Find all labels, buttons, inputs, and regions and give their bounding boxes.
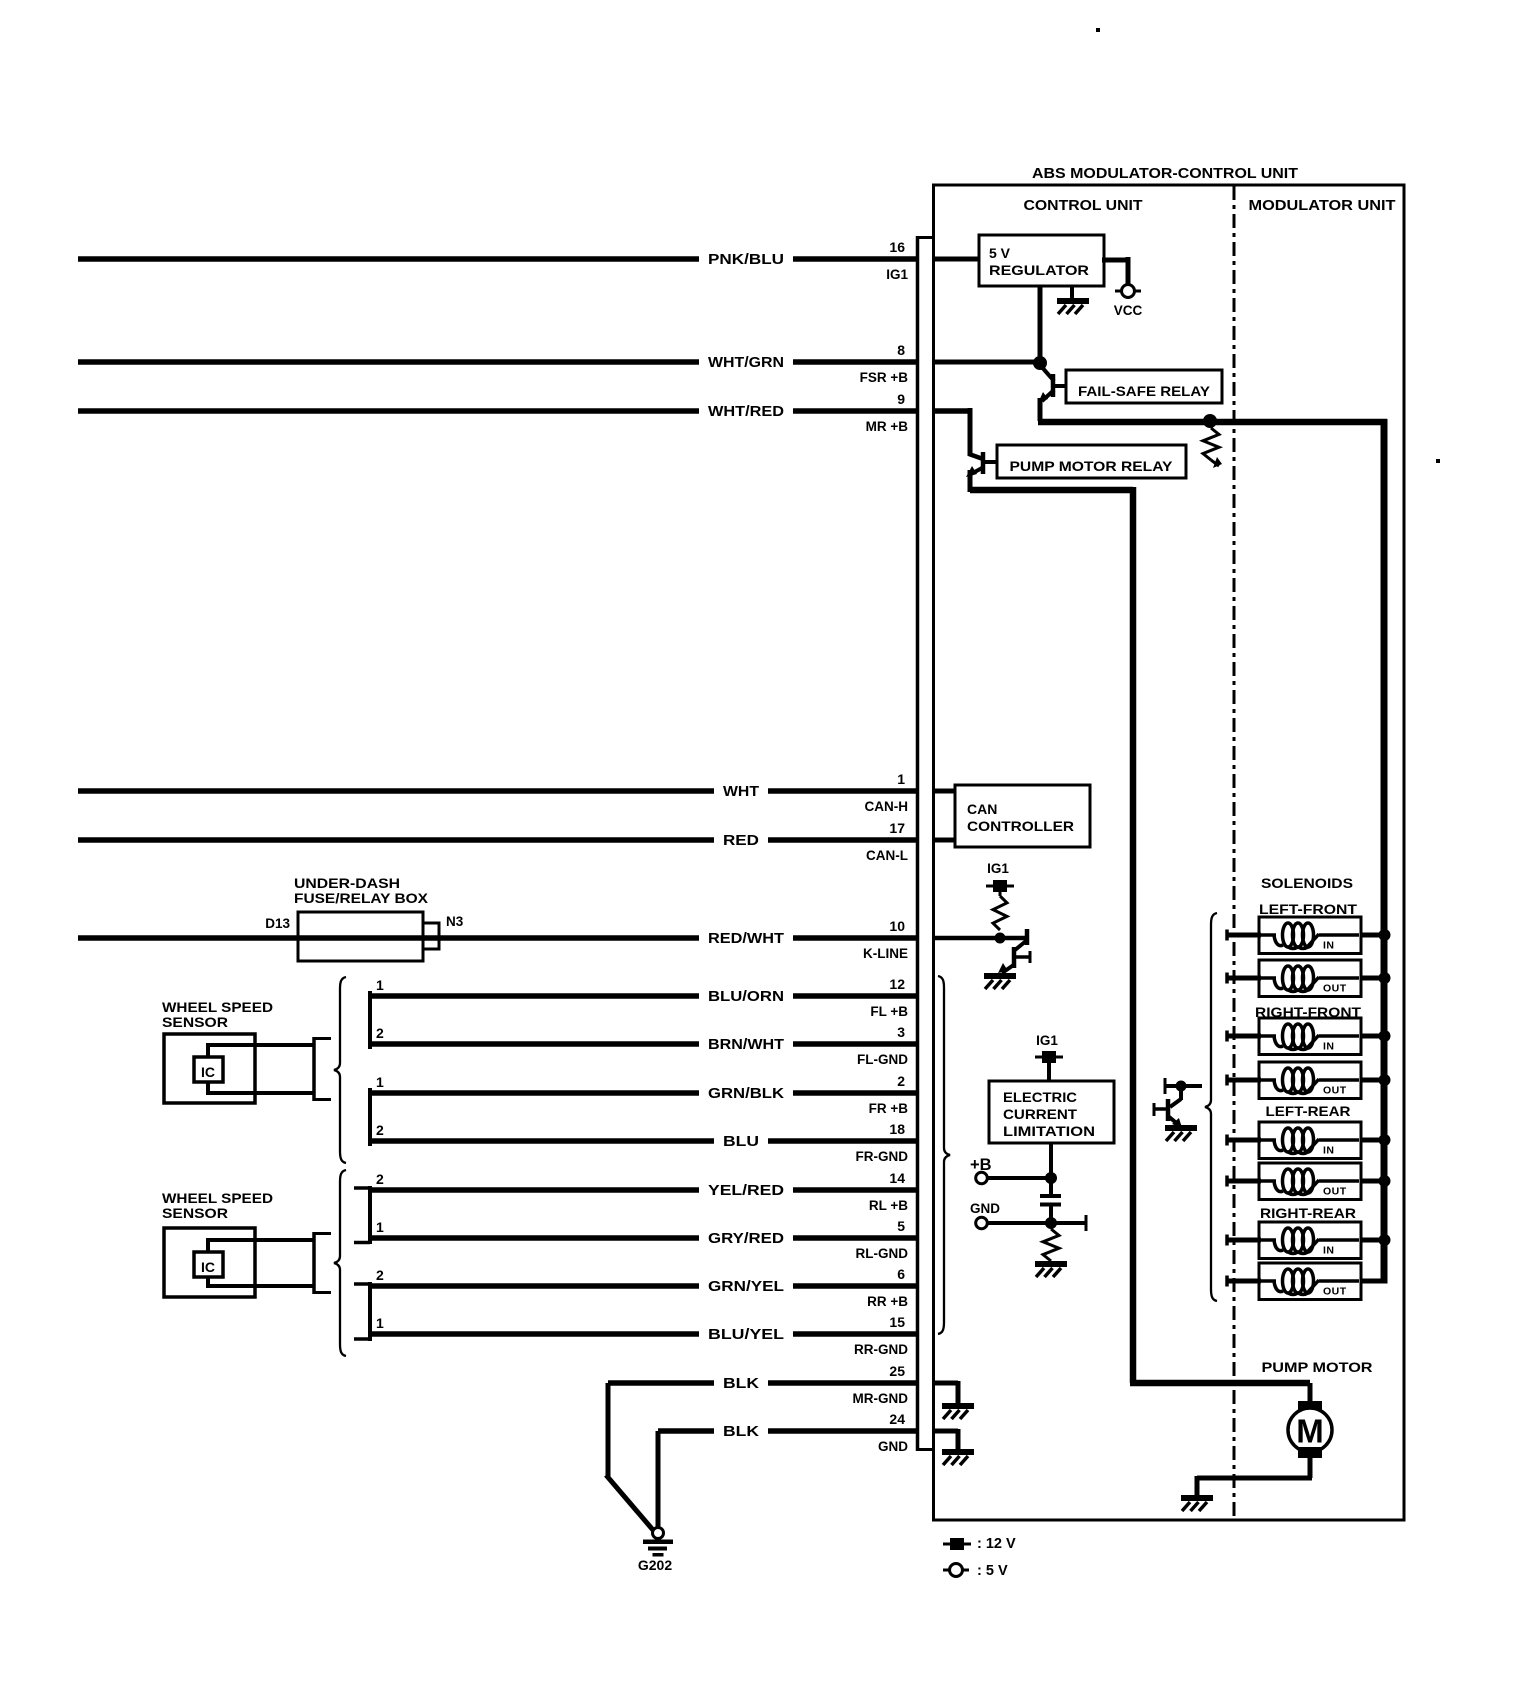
svg-text:GND: GND bbox=[878, 1439, 908, 1454]
svg-text:RR-GND: RR-GND bbox=[854, 1342, 908, 1357]
svg-text:1: 1 bbox=[376, 1074, 384, 1090]
svg-text:FR-GND: FR-GND bbox=[856, 1149, 909, 1164]
label pin name MR +B bbox=[866, 419, 909, 434]
svg-text:FUSE/RELAY BOX: FUSE/RELAY BOX bbox=[294, 890, 429, 906]
divider dash-dot line between control and modulator unit bbox=[1233, 186, 1236, 1519]
solenoid LEFT-REAR IN bbox=[1259, 1122, 1361, 1159]
label pin name RL +B bbox=[869, 1198, 908, 1213]
ground at Q4 bbox=[1165, 1125, 1197, 1141]
svg-text:1: 1 bbox=[376, 1315, 384, 1331]
label pin number 14 bbox=[889, 1170, 905, 1186]
ground at GND bbox=[942, 1449, 974, 1465]
svg-text:SENSOR: SENSOR bbox=[162, 1014, 228, 1030]
svg-text:M: M bbox=[1296, 1413, 1324, 1450]
svg-text:2: 2 bbox=[376, 1025, 384, 1041]
svg-text:BLK: BLK bbox=[723, 1424, 760, 1440]
svg-text:RED/WHT: RED/WHT bbox=[708, 931, 784, 947]
svg-text:RR +B: RR +B bbox=[867, 1294, 908, 1309]
svg-text:IC: IC bbox=[201, 1259, 215, 1275]
label pin number 12 bbox=[889, 976, 905, 992]
solenoid RIGHT-REAR OUT bbox=[1259, 1263, 1361, 1300]
svg-text:WHEEL SPEED: WHEEL SPEED bbox=[162, 1190, 273, 1206]
5 V regulator U1 bbox=[979, 235, 1104, 286]
svg-text:BLU: BLU bbox=[723, 1134, 759, 1150]
label pin number 2 bbox=[897, 1073, 905, 1089]
wire pair bracket FR pins 1-2 bbox=[368, 1088, 372, 1146]
svg-text:CONTROLLER: CONTROLLER bbox=[967, 818, 1074, 834]
wire IG1 to ECL box bbox=[1047, 1057, 1051, 1081]
wire BLU/ORN segment to connector pin 12 bbox=[793, 993, 917, 999]
wire WHT/RED pin 9 (MR +B) left segment bbox=[78, 408, 699, 414]
svg-text:17: 17 bbox=[889, 820, 905, 836]
scan speck right bbox=[1436, 459, 1440, 463]
label wire color YEL/RED bbox=[708, 1183, 784, 1199]
label solenoid group RIGHT-REAR bbox=[1260, 1205, 1356, 1221]
label pin name FR +B bbox=[869, 1101, 909, 1116]
label WHEEL SPEED SENSOR 2 bbox=[162, 1190, 273, 1221]
label PUMP MOTOR bbox=[1262, 1359, 1373, 1375]
svg-text:OUT: OUT bbox=[1323, 983, 1347, 995]
svg-text:OUT: OUT bbox=[1323, 1186, 1347, 1198]
label pin number 10 bbox=[889, 918, 905, 934]
svg-text:5 V: 5 V bbox=[989, 245, 1011, 261]
wheel speed sensor 2 internal wiring bbox=[206, 1240, 314, 1286]
label pin number 17 bbox=[889, 820, 905, 836]
ground at ECL resistor bbox=[1035, 1261, 1067, 1277]
label pin name RR-GND bbox=[854, 1342, 908, 1357]
label wire color BLU bbox=[723, 1134, 759, 1150]
wire GRN/BLK pin 2 (FR +B) left segment bbox=[370, 1090, 699, 1096]
label wire color WHT bbox=[723, 784, 759, 800]
wire to RIGHT-REAR OUT solenoid bbox=[1227, 1276, 1261, 1287]
label : 5 V bbox=[977, 1563, 1008, 1579]
ground at K-line transistor bbox=[984, 973, 1016, 989]
label pin name IG1 bbox=[886, 267, 908, 282]
wire WHT segment to connector pin 1 bbox=[768, 788, 917, 794]
wheel speed sensor 1 body bbox=[164, 1034, 255, 1103]
node junction solenoid feed at 1240 bbox=[1379, 1234, 1391, 1246]
connector D13 under-dash fuse/relay box bbox=[298, 912, 423, 961]
svg-text:MR-GND: MR-GND bbox=[853, 1391, 909, 1406]
wire to RIGHT-FRONT IN solenoid bbox=[1227, 1031, 1261, 1042]
svg-text:YEL/RED: YEL/RED bbox=[708, 1183, 784, 1199]
wire ECL box to +B junction bbox=[1049, 1143, 1053, 1178]
svg-text:LEFT-FRONT: LEFT-FRONT bbox=[1259, 901, 1357, 917]
label pin number 24 bbox=[889, 1411, 905, 1427]
label solenoid group LEFT-REAR bbox=[1266, 1103, 1351, 1119]
label WHEEL SPEED SENSOR 1 bbox=[162, 999, 273, 1030]
connector N3 tab bbox=[423, 923, 439, 949]
svg-text:GND: GND bbox=[970, 1201, 1000, 1216]
label +B bbox=[970, 1156, 992, 1174]
wire solenoid LEFT-REAR IN to 12V feed bbox=[1361, 1138, 1387, 1143]
svg-text:WHT/RED: WHT/RED bbox=[708, 404, 784, 420]
wire GND to junction and stub bbox=[987, 1215, 1086, 1231]
label pin number 9 bbox=[897, 391, 905, 407]
svg-text:IN: IN bbox=[1323, 1041, 1335, 1053]
wire PNK/BLU pin 16 (IG1) left segment bbox=[78, 256, 699, 262]
wire solenoid RIGHT-FRONT IN to 12V feed bbox=[1361, 1034, 1387, 1039]
wire MR-GND pin 25 to ground bbox=[933, 1381, 958, 1404]
label pin number 25 bbox=[889, 1363, 905, 1379]
node junction solenoid feed at 978 bbox=[1379, 972, 1391, 984]
svg-text:PUMP MOTOR: PUMP MOTOR bbox=[1262, 1359, 1373, 1375]
svg-text:1: 1 bbox=[897, 771, 905, 787]
wire WHT/GRN pin 8 (FSR +B) left segment bbox=[78, 359, 699, 365]
wire 12V rail from Q1 to modulator solenoid feed bbox=[1038, 419, 1387, 426]
wire pin 16 to 5V regulator bbox=[933, 257, 979, 262]
wire GRY/RED pin 5 (RL-GND) left segment bbox=[370, 1235, 699, 1241]
svg-text:1: 1 bbox=[376, 977, 384, 993]
capacitor C1 bbox=[1040, 1178, 1061, 1223]
label wire color BLK bbox=[723, 1376, 760, 1392]
motor M1 pump motor bbox=[1288, 1401, 1332, 1458]
svg-text:BRN/WHT: BRN/WHT bbox=[708, 1037, 784, 1053]
node junction on 12V rail bbox=[1203, 414, 1217, 428]
svg-text:2: 2 bbox=[897, 1073, 905, 1089]
svg-text:GRY/RED: GRY/RED bbox=[708, 1231, 784, 1247]
wire to RIGHT-FRONT OUT solenoid bbox=[1227, 1075, 1261, 1086]
label wire color GRN/YEL bbox=[708, 1279, 784, 1295]
svg-text:5: 5 bbox=[897, 1218, 905, 1234]
resistor K-line pull-up bbox=[993, 892, 1007, 930]
svg-text:CAN: CAN bbox=[967, 801, 997, 817]
svg-text:PNK/BLU: PNK/BLU bbox=[708, 252, 784, 268]
label wire color GRN/BLK bbox=[708, 1086, 785, 1102]
wire GND pin 24 to ground bbox=[933, 1429, 958, 1450]
label pin number 15 bbox=[889, 1314, 905, 1330]
svg-text:8: 8 bbox=[897, 342, 905, 358]
block ELECTRIC CURRENT LIMITATION bbox=[989, 1081, 1114, 1143]
solenoid RIGHT-FRONT IN bbox=[1259, 1018, 1361, 1055]
wire to LEFT-REAR OUT solenoid bbox=[1227, 1176, 1261, 1187]
svg-text:LIMITATION: LIMITATION bbox=[1003, 1124, 1095, 1139]
IC chip inside wheel speed sensor 2 bbox=[194, 1252, 223, 1277]
node junction +B bbox=[1045, 1172, 1057, 1184]
svg-text:OUT: OUT bbox=[1323, 1286, 1347, 1298]
svg-text:IG1: IG1 bbox=[987, 861, 1009, 876]
wire WHT/GRN segment to connector pin 8 bbox=[793, 359, 917, 365]
wire 12V solenoid feed vertical bbox=[1381, 419, 1388, 1284]
label pin name CAN-L bbox=[866, 848, 908, 863]
transistor Q1 fail-safe relay driver bbox=[1038, 365, 1066, 421]
label pin name FSR +B bbox=[860, 370, 909, 385]
label solenoid group LEFT-FRONT bbox=[1259, 901, 1357, 917]
wire RED/WHT segment to connector pin 10 bbox=[793, 935, 917, 941]
ground at 5V regulator bbox=[1057, 286, 1089, 314]
scan speck top bbox=[1096, 28, 1100, 32]
wire BLK pin 24 drop to G202 bbox=[656, 1431, 661, 1528]
wire GRY/RED segment to connector pin 5 bbox=[793, 1235, 917, 1241]
wire RED pin 17 (CAN-L) left segment bbox=[78, 837, 714, 843]
svg-text:G202: G202 bbox=[638, 1557, 672, 1573]
node GND 5V terminal bbox=[976, 1217, 988, 1229]
solenoid LEFT-FRONT OUT bbox=[1259, 960, 1361, 997]
label sensor wire pin number 2 at row 1190 bbox=[376, 1171, 384, 1187]
svg-text:14: 14 bbox=[889, 1170, 905, 1186]
label pin number 16 bbox=[889, 239, 905, 255]
wire WHT/RED segment to connector pin 9 bbox=[793, 408, 917, 414]
label pin number 18 bbox=[889, 1121, 905, 1137]
label wire color RED/WHT bbox=[708, 931, 784, 947]
label : 12 V bbox=[977, 1536, 1016, 1552]
wire BLK pin 24 (GND) left segment bbox=[658, 1428, 714, 1434]
svg-text:BLU/ORN: BLU/ORN bbox=[708, 989, 784, 1005]
ground at MR-GND bbox=[942, 1403, 974, 1419]
svg-text:IN: IN bbox=[1323, 1145, 1335, 1157]
brace grouping solenoids bbox=[1205, 913, 1217, 1301]
node junction WHT/GRN bbox=[1033, 356, 1047, 370]
node IG1 12V supply K-line bbox=[986, 880, 1014, 892]
label pin number 1 bbox=[897, 771, 905, 787]
label wire color BLU/YEL bbox=[708, 1327, 784, 1343]
wire PNK/BLU segment to connector pin 16 bbox=[793, 256, 917, 262]
wire CAN-H pin 1 to CAN controller bbox=[933, 789, 957, 794]
solenoid LEFT-FRONT IN bbox=[1259, 917, 1361, 954]
svg-text:9: 9 bbox=[897, 391, 905, 407]
wire BLU/YEL segment to connector pin 15 bbox=[793, 1331, 917, 1337]
label MODULATOR UNIT bbox=[1249, 198, 1396, 214]
wire pump motor feed down to pump motor bbox=[970, 487, 1133, 1383]
wire pump motor to ground bbox=[1197, 1458, 1312, 1496]
wire K-LINE pin 10 into control unit bbox=[933, 936, 1026, 941]
connector ABS control unit 26-pin (bar) bbox=[916, 236, 933, 1451]
label IG1 K-line pull-up bbox=[987, 861, 1009, 876]
wire BLU segment to connector pin 18 bbox=[768, 1138, 917, 1144]
label CONTROL UNIT bbox=[1024, 198, 1143, 214]
solenoid RIGHT-REAR IN bbox=[1259, 1222, 1361, 1259]
svg-text:GRN/BLK: GRN/BLK bbox=[708, 1086, 785, 1102]
label pin name FL-GND bbox=[857, 1052, 908, 1067]
svg-text:FL +B: FL +B bbox=[870, 1004, 908, 1019]
wire BLK segment to connector pin 24 bbox=[768, 1428, 917, 1434]
label sensor wire pin number 2 at row 1141 bbox=[376, 1122, 384, 1138]
svg-text:CAN-L: CAN-L bbox=[866, 848, 908, 863]
svg-text:D13: D13 bbox=[265, 916, 290, 931]
svg-text:IG1: IG1 bbox=[886, 267, 908, 282]
label pin name K-LINE bbox=[863, 946, 908, 961]
wire regulator output to VCC bbox=[1102, 257, 1128, 285]
node +B 5V terminal bbox=[976, 1172, 988, 1184]
svg-text:OUT: OUT bbox=[1323, 1085, 1347, 1097]
wire WHT/RED pin 9 into control unit bbox=[933, 408, 970, 492]
label pin name RL-GND bbox=[856, 1246, 909, 1261]
node junction solenoid feed at 1080 bbox=[1379, 1074, 1391, 1086]
svg-text:12: 12 bbox=[889, 976, 905, 992]
label pin number 3 bbox=[897, 1024, 905, 1040]
box ABS modulator-control unit outline bbox=[934, 185, 1405, 1520]
label sensor wire pin number 1 at row 1334 bbox=[376, 1315, 384, 1331]
svg-text:25: 25 bbox=[889, 1363, 905, 1379]
connector bar of wheel speed sensor 2 bbox=[314, 1232, 331, 1294]
label wire color WHT/GRN bbox=[708, 355, 784, 371]
node junction K-line resistor bbox=[995, 933, 1006, 944]
wire solenoid RIGHT-REAR OUT to 12V feed bbox=[1361, 1279, 1387, 1284]
resistor fail-safe relay coil bbox=[1203, 428, 1222, 468]
svg-text:ABS MODULATOR-CONTROL UNIT: ABS MODULATOR-CONTROL UNIT bbox=[1032, 166, 1298, 182]
svg-text:WHT: WHT bbox=[723, 784, 759, 800]
svg-text:WHEEL SPEED: WHEEL SPEED bbox=[162, 999, 273, 1015]
svg-text:LEFT-REAR: LEFT-REAR bbox=[1266, 1103, 1351, 1119]
wire to LEFT-REAR IN solenoid bbox=[1227, 1135, 1261, 1146]
transistor Q4 solenoid driver bbox=[1154, 1078, 1202, 1128]
transistor Q2 pump motor relay driver bbox=[966, 452, 997, 477]
label D13 bbox=[265, 916, 290, 931]
svg-text:WHT/GRN: WHT/GRN bbox=[708, 355, 784, 371]
svg-text:IC: IC bbox=[201, 1064, 215, 1080]
resistor below GND junction bbox=[1043, 1229, 1059, 1261]
wheel speed sensor 1 internal wiring bbox=[206, 1045, 314, 1093]
label pin name FL +B bbox=[870, 1004, 908, 1019]
node junction solenoid feed at 1181 bbox=[1379, 1175, 1391, 1187]
svg-text:RIGHT-REAR: RIGHT-REAR bbox=[1260, 1205, 1356, 1221]
label SOLENOIDS bbox=[1261, 875, 1353, 891]
solenoid LEFT-REAR OUT bbox=[1259, 1163, 1361, 1200]
svg-text:MR +B: MR +B bbox=[866, 419, 909, 434]
wire YEL/RED segment to connector pin 14 bbox=[793, 1187, 917, 1193]
svg-text:N3: N3 bbox=[446, 914, 464, 929]
wire solenoid LEFT-REAR OUT to 12V feed bbox=[1361, 1179, 1387, 1184]
brace grouping sensor pins inside control unit bbox=[938, 976, 950, 1334]
svg-text:: 12 V: : 12 V bbox=[977, 1536, 1016, 1552]
wire BLU pin 18 (FR-GND) left segment bbox=[370, 1138, 714, 1144]
svg-text:BLU/YEL: BLU/YEL bbox=[708, 1327, 784, 1343]
svg-text:FSR +B: FSR +B bbox=[860, 370, 909, 385]
label wire color BLK bbox=[723, 1424, 760, 1440]
solenoid RIGHT-FRONT OUT bbox=[1259, 1062, 1361, 1099]
relay box PUMP MOTOR RELAY bbox=[997, 445, 1186, 478]
svg-text:: 5 V: : 5 V bbox=[977, 1563, 1008, 1579]
label wire color BRN/WHT bbox=[708, 1037, 784, 1053]
wire YEL/RED pin 14 (RL +B) left segment bbox=[370, 1187, 699, 1193]
wire to pump motor bbox=[1130, 1383, 1310, 1403]
legend 5V symbol bbox=[943, 1564, 969, 1577]
svg-text:IN: IN bbox=[1323, 940, 1335, 952]
label wire color BLU/ORN bbox=[708, 989, 784, 1005]
label wire color WHT/RED bbox=[708, 404, 784, 420]
svg-text:SOLENOIDS: SOLENOIDS bbox=[1261, 875, 1353, 891]
svg-text:IN: IN bbox=[1323, 1245, 1335, 1257]
svg-text:1: 1 bbox=[376, 1219, 384, 1235]
node junction GND bbox=[1045, 1217, 1057, 1229]
wire BLK pin 25 (MR-GND) left segment bbox=[608, 1380, 714, 1386]
label wire color RED bbox=[723, 833, 759, 849]
node VCC 5V terminal bbox=[1115, 285, 1141, 298]
svg-text:2: 2 bbox=[376, 1267, 384, 1283]
wheel speed sensor 2 body bbox=[164, 1228, 255, 1297]
svg-text:BLK: BLK bbox=[723, 1376, 760, 1392]
svg-text:2: 2 bbox=[376, 1171, 384, 1187]
label sensor wire pin number 2 at row 1044 bbox=[376, 1025, 384, 1041]
wire BLU/YEL pin 15 (RR-GND) left segment bbox=[370, 1331, 699, 1337]
legend 12V symbol bbox=[943, 1538, 971, 1550]
svg-text:6: 6 bbox=[897, 1266, 905, 1282]
relay box FAIL-SAFE RELAY bbox=[1066, 370, 1222, 403]
svg-text:RL +B: RL +B bbox=[869, 1198, 908, 1213]
wire GRN/YEL segment to connector pin 6 bbox=[793, 1283, 917, 1289]
label sensor wire pin number 1 at row 1238 bbox=[376, 1219, 384, 1235]
wire BRN/WHT segment to connector pin 3 bbox=[793, 1041, 917, 1047]
svg-text:CURRENT: CURRENT bbox=[1003, 1107, 1078, 1122]
label sensor wire pin number 2 at row 1286 bbox=[376, 1267, 384, 1283]
node IG1 12V supply ECL bbox=[1035, 1051, 1063, 1063]
label wire color GRY/RED bbox=[708, 1231, 784, 1247]
label GND bbox=[970, 1201, 1000, 1216]
label solenoid group RIGHT-FRONT bbox=[1255, 1004, 1361, 1020]
svg-text:18: 18 bbox=[889, 1121, 905, 1137]
svg-text:3: 3 bbox=[897, 1024, 905, 1040]
svg-text:CAN-H: CAN-H bbox=[865, 799, 909, 814]
label pin name FR-GND bbox=[856, 1149, 909, 1164]
svg-text:FL-GND: FL-GND bbox=[857, 1052, 908, 1067]
label IG1 electric current limitation bbox=[1036, 1033, 1058, 1048]
label wire color PNK/BLU bbox=[708, 252, 784, 268]
transistor Q3 K-line interface bbox=[998, 929, 1030, 973]
ground at pump motor bbox=[1181, 1495, 1213, 1511]
wire +B to junction bbox=[987, 1176, 1051, 1180]
svg-text:UNDER-DASH: UNDER-DASH bbox=[294, 875, 400, 891]
svg-text:RL-GND: RL-GND bbox=[856, 1246, 909, 1261]
node junction solenoid feed at 935 bbox=[1379, 929, 1391, 941]
svg-text:ELECTRIC: ELECTRIC bbox=[1003, 1090, 1077, 1105]
svg-text:VCC: VCC bbox=[1114, 303, 1143, 318]
node junction solenoid feed at 1140 bbox=[1379, 1134, 1391, 1146]
label pin number 6 bbox=[897, 1266, 905, 1282]
svg-text:10: 10 bbox=[889, 918, 905, 934]
wire solenoid LEFT-FRONT OUT to 12V feed bbox=[1361, 976, 1387, 981]
label sensor wire pin number 1 at row 1093 bbox=[376, 1074, 384, 1090]
label pin name RR +B bbox=[867, 1294, 908, 1309]
svg-text:REGULATOR: REGULATOR bbox=[989, 262, 1089, 278]
brace grouping front wheel sensor wires bbox=[334, 977, 346, 1163]
node junction solenoid feed at 1036 bbox=[1379, 1030, 1391, 1042]
wire to LEFT-FRONT IN solenoid bbox=[1227, 930, 1261, 941]
label G202 bbox=[638, 1557, 672, 1573]
label VCC bbox=[1114, 303, 1143, 318]
IC chip inside wheel speed sensor 1 bbox=[194, 1057, 223, 1082]
label sensor wire pin number 1 at row 996 bbox=[376, 977, 384, 993]
label N3 bbox=[446, 914, 464, 929]
wire BLK segment to connector pin 25 bbox=[768, 1380, 917, 1386]
label pin name CAN-H bbox=[865, 799, 909, 814]
wire pair bracket FL pins 1-2 bbox=[368, 991, 372, 1049]
svg-text:SENSOR: SENSOR bbox=[162, 1205, 228, 1221]
wire GRN/BLK segment to connector pin 2 bbox=[793, 1090, 917, 1096]
wire BLU/ORN pin 12 (FL +B) left segment bbox=[370, 993, 699, 999]
label UNDER-DASH FUSE/RELAY BOX bbox=[294, 875, 429, 906]
wire BRN/WHT pin 3 (FL-GND) left segment bbox=[370, 1041, 699, 1047]
svg-text:16: 16 bbox=[889, 239, 905, 255]
label pin number 8 bbox=[897, 342, 905, 358]
wire to RIGHT-REAR IN solenoid bbox=[1227, 1235, 1261, 1246]
wire solenoid LEFT-FRONT IN to 12V feed bbox=[1361, 933, 1387, 938]
brace grouping rear wheel sensor wires bbox=[334, 1170, 346, 1356]
wire regulator to WHT/GRN junction bbox=[1038, 286, 1043, 365]
ground G202 bbox=[643, 1528, 673, 1557]
svg-text:15: 15 bbox=[889, 1314, 905, 1330]
wire pair connector bracket RL pins 2-1 bbox=[354, 1186, 370, 1244]
wire GRN/YEL pin 6 (RR +B) left segment bbox=[370, 1283, 699, 1289]
wire RED segment to connector pin 17 bbox=[768, 837, 917, 843]
wire BLK pin 25 drop to G202 bbox=[606, 1383, 653, 1530]
CAN controller U2 bbox=[955, 785, 1090, 847]
wire solenoid RIGHT-REAR IN to 12V feed bbox=[1361, 1238, 1387, 1243]
svg-text:2: 2 bbox=[376, 1122, 384, 1138]
svg-text:FR +B: FR +B bbox=[869, 1101, 909, 1116]
svg-text:MODULATOR UNIT: MODULATOR UNIT bbox=[1249, 198, 1396, 214]
wire RED/WHT pin 10 (K-LINE) left segment bbox=[78, 935, 699, 941]
svg-text:RED: RED bbox=[723, 833, 759, 849]
